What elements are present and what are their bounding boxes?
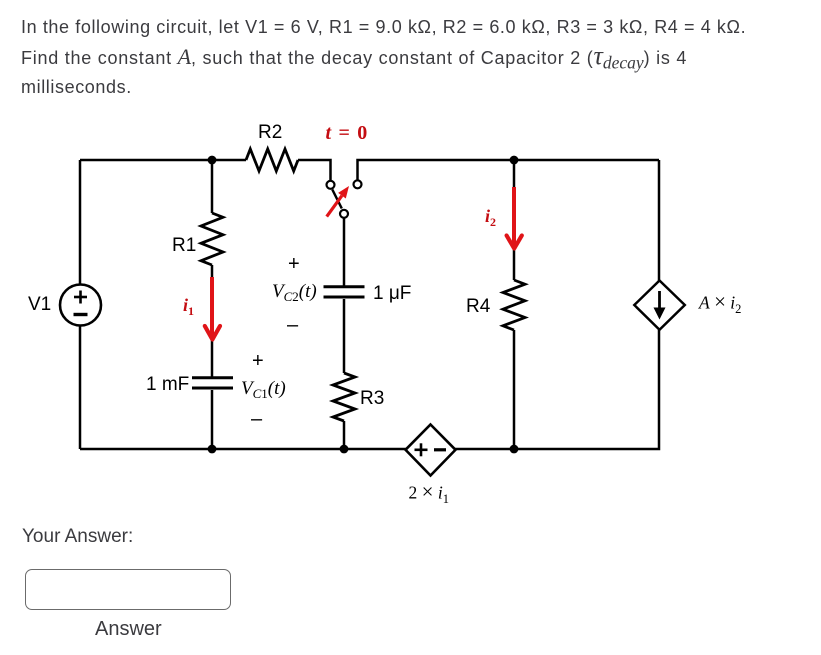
wire R3 to bottom node xyxy=(343,421,346,449)
wire left side bottom xyxy=(79,326,82,450)
junction dot node B xyxy=(510,156,519,165)
wire C2 to R3 xyxy=(343,299,346,373)
capacitor C2 plates xyxy=(324,287,365,297)
svg-text:R1: R1 xyxy=(172,235,196,256)
svg-text:1 μF: 1 μF xyxy=(373,283,411,304)
wire R1 to capacitor C1 xyxy=(211,265,214,377)
svg-text:VC1(t): VC1(t) xyxy=(241,378,286,401)
resistor R2 xyxy=(246,149,298,171)
wire bottom main segment xyxy=(80,448,406,451)
resistor R1 xyxy=(201,213,223,265)
junction dot bottom node 2 xyxy=(340,445,349,454)
svg-text:i2: i2 xyxy=(485,206,496,229)
capacitor C1 plates xyxy=(192,378,233,388)
wire left side top xyxy=(79,160,82,285)
dependent voltage source 2xi1 diamond xyxy=(406,425,456,476)
wire R2 to switch left terminal xyxy=(298,160,331,181)
wire node B down to R4 xyxy=(513,160,516,280)
resistor R3 xyxy=(333,373,355,421)
svg-text:–: – xyxy=(251,408,263,430)
svg-text:+: + xyxy=(288,253,300,275)
resistor R4 xyxy=(503,280,525,330)
svg-text:A × i2: A × i2 xyxy=(698,290,741,317)
wire switch right terminal to top-right corner xyxy=(358,160,660,181)
svg-text:i1: i1 xyxy=(183,295,194,318)
wire right side down to current source xyxy=(658,160,661,281)
wire node A down to R1 xyxy=(211,160,214,213)
voltage source V1 xyxy=(60,285,101,326)
wire C1 to bottom xyxy=(211,390,214,449)
svg-text:R3: R3 xyxy=(360,388,384,409)
svg-text:R2: R2 xyxy=(258,122,282,143)
wire switch pole down to capacitor C2 xyxy=(343,218,346,288)
svg-text:V1: V1 xyxy=(28,294,51,315)
dependent current source Axi2 diamond xyxy=(634,281,685,330)
svg-text:2 × i1: 2 × i1 xyxy=(409,480,449,507)
junction dot bottom node 3 xyxy=(510,445,519,454)
svg-text:–: – xyxy=(287,314,299,336)
wire current source to bottom-right corner xyxy=(455,330,659,449)
svg-text:+: + xyxy=(252,350,264,372)
wire R4 to bottom node xyxy=(513,330,516,449)
switch actuation red arrow xyxy=(327,186,349,217)
current arrow i2 xyxy=(507,187,522,249)
svg-text:1 mF: 1 mF xyxy=(146,374,189,395)
svg-text:t = 0: t = 0 xyxy=(326,122,369,144)
switch SW1 (t=0) xyxy=(327,180,362,218)
svg-text:R4: R4 xyxy=(466,296,491,317)
wire top-left segment xyxy=(80,159,246,162)
svg-text:VC2(t): VC2(t) xyxy=(272,281,317,304)
current arrow i1 xyxy=(205,277,220,340)
junction dot bottom node 1 xyxy=(208,445,217,454)
junction dot node A xyxy=(208,156,217,165)
